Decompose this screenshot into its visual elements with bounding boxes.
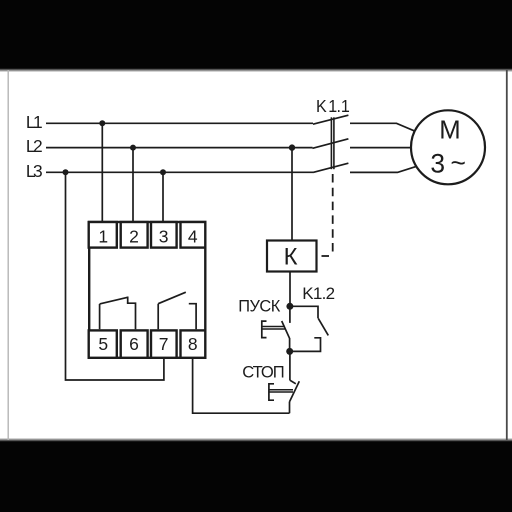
svg-text:СТОП: СТОП (242, 363, 283, 382)
terminal 4 (181, 222, 206, 248)
svg-text:4: 4 (188, 227, 198, 247)
svg-text:1: 1 (98, 227, 108, 247)
svg-text:3: 3 (159, 227, 169, 247)
svg-text:K1.2: K1.2 (302, 284, 334, 303)
terminal 7 (151, 330, 177, 357)
terminal 1 (89, 222, 117, 248)
svg-text:L3: L3 (26, 161, 42, 181)
wire L1 to motor (350, 123, 415, 131)
svg-text:L2: L2 (26, 136, 42, 156)
node L2 junction dot (coil tap) (289, 144, 295, 150)
motor letter M (439, 117, 460, 145)
contact K1.1 phase A arm (313, 115, 348, 124)
svg-text:K1.1: K1.1 (316, 97, 350, 117)
contact K1.1 phase C arm (313, 163, 348, 172)
svg-text:3: 3 (430, 149, 445, 179)
wire L2 to terminal 2 (132, 148, 134, 221)
wire L1 left segment (46, 122, 313, 124)
terminal 5 (89, 330, 117, 357)
node L3 junction dot (to terminal 3) (160, 169, 166, 175)
K1.1 mechanical linkage double bar (331, 117, 334, 169)
wire L3 to control return (long left drop) (66, 172, 164, 380)
pushbutton СТОП (stop, NC) (269, 351, 299, 413)
terminal 8 (181, 330, 206, 357)
page right edge artifact (506, 70, 508, 440)
svg-text:5: 5 (98, 334, 108, 354)
node B (start-button bottom) (286, 348, 293, 355)
node L1 junction dot (99, 120, 105, 126)
node L3 junction dot (left, control return) (63, 169, 69, 175)
svg-text:6: 6 (129, 334, 139, 354)
wire coil K to node A (289, 272, 291, 307)
motor M circle (411, 110, 485, 184)
node A (start-button top) (286, 303, 293, 310)
relay contact 7-8 (open) (158, 292, 196, 329)
contact K1.1 phase B arm (313, 139, 349, 149)
pushbutton ПУСК (start, NO) (262, 306, 290, 351)
svg-text:2: 2 (129, 227, 139, 247)
label K1.2 (302, 284, 334, 303)
label СТОП (242, 363, 283, 382)
label ПУСК (238, 298, 281, 316)
white drawing area (0, 70, 512, 440)
relay contact 5-6 (closed) (100, 297, 136, 330)
relay device body box (89, 222, 205, 358)
svg-text:L1: L1 (26, 112, 42, 132)
svg-text:7: 7 (159, 334, 169, 354)
wire L2 tap down to coil K (291, 148, 293, 241)
label L1 (26, 112, 42, 132)
label K 1.1 (316, 97, 350, 117)
svg-text:M: M (439, 117, 460, 145)
svg-text:ПУСК: ПУСК (238, 298, 281, 316)
wire L1 to terminal 1 (101, 123, 103, 221)
motor label 3~ (430, 148, 466, 179)
label L3 (26, 161, 42, 181)
contact K1.2 (self-hold branch) (290, 306, 329, 351)
terminal 6 (121, 330, 148, 357)
svg-text:~: ~ (450, 148, 465, 178)
page left edge artifact (7, 70, 9, 440)
dashed mechanical link to coil K (322, 174, 333, 256)
wire stop button to terminal 8 (193, 359, 290, 413)
node L2 junction dot (to terminal 2) (130, 145, 136, 151)
wire L2 to motor (350, 147, 411, 149)
contactor coil K box (267, 241, 317, 272)
svg-text:К: К (284, 244, 298, 271)
terminal 3 (151, 222, 177, 248)
wire L3 to terminal 3 (162, 172, 164, 221)
wire L3 to motor (350, 167, 416, 173)
terminal 2 (121, 222, 148, 248)
label L2 (26, 136, 42, 156)
svg-text:8: 8 (188, 334, 198, 354)
wire L3 left segment (46, 171, 313, 173)
wire L2 left segment (46, 147, 313, 149)
